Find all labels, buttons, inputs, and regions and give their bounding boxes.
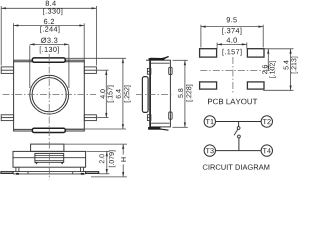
button outer circle	[30, 75, 69, 114]
front inner box	[35, 153, 64, 162]
dim 5.8	[173, 60, 188, 127]
side centerline	[136, 94, 174, 96]
dim 5.4	[263, 49, 293, 90]
right tab top	[84, 67, 96, 74]
right tab bottom	[84, 115, 96, 121]
switch stub bottom	[238, 138, 240, 151]
side body left wall thick	[149, 60, 151, 127]
switch stub top	[238, 122, 240, 127]
dim dia3.3 text	[41, 38, 57, 44]
front right lead	[86, 172, 99, 174]
side button	[142, 77, 148, 113]
front body	[13, 151, 86, 167]
CIRCUIT DIAGRAM label	[203, 165, 269, 170]
top slot terminal	[32, 58, 65, 62]
dim 6.2 arrows	[14, 24, 85, 26]
terminal T3	[204, 145, 215, 156]
side right tab bottom	[169, 112, 172, 119]
centerline horizontal	[3, 94, 97, 96]
side right tab top	[169, 67, 172, 74]
front base plate	[13, 172, 86, 174]
side inner bottom line	[151, 122, 170, 124]
pad top-left	[200, 49, 217, 57]
pcb centerline horizontal	[200, 70, 275, 72]
dim 8.4 text	[46, 1, 56, 6]
dim 8.4 line	[1, 6, 96, 66]
bottom slot terminal	[32, 128, 65, 132]
pcb centerline vertical	[232, 57, 234, 93]
side bottom tab wisp	[160, 129, 169, 130]
front left lead	[1, 172, 13, 174]
dim 9.5	[201, 25, 263, 48]
dim dia 3.3 arrows	[30, 43, 69, 45]
switch contact top	[237, 127, 240, 130]
switch lever	[234, 129, 238, 135]
terminal T4	[261, 145, 272, 156]
top view body	[14, 60, 85, 131]
wire bottom	[216, 150, 262, 152]
side left terminal bottom	[147, 115, 151, 121]
dim 2.6	[263, 49, 293, 71]
button inner circle	[32, 78, 66, 112]
left tab top	[1, 67, 13, 74]
left tab bottom	[1, 115, 13, 121]
side left terminal top	[147, 68, 151, 74]
side body	[150, 60, 170, 127]
PCB LAYOUT label	[208, 99, 257, 105]
pad bottom-right	[247, 82, 264, 89]
dim 6.2 text	[44, 19, 54, 24]
side top bent tab	[149, 56, 169, 61]
front dark feet	[16, 173, 84, 175]
side inner top line	[151, 62, 170, 64]
side roof line	[146, 59, 150, 61]
centerline vertical	[48, 54, 50, 140]
dim 6.4	[65, 58, 127, 129]
side bottom bent tab	[148, 127, 160, 130]
dim 4.0 pads	[217, 43, 247, 49]
dim 4.0 (right of top view)	[97, 70, 109, 118]
pad bottom-left	[200, 82, 217, 89]
dim 6.2 line	[14, 23, 85, 60]
front inner feet	[35, 162, 64, 164]
terminal T1	[204, 116, 215, 127]
dim 8.4 arrows	[1, 7, 96, 9]
wire top	[216, 121, 262, 123]
front centerline	[48, 142, 50, 180]
dim dia 3.3 line	[30, 44, 69, 88]
front step line	[13, 157, 86, 159]
front housing feet	[16, 167, 84, 171]
front button	[31, 144, 64, 151]
front inner line	[35, 155, 64, 157]
pad top-right	[247, 49, 264, 57]
switch contact bottom	[238, 135, 241, 138]
terminal T2	[261, 116, 272, 127]
dim 2.0 and H	[64, 144, 127, 177]
